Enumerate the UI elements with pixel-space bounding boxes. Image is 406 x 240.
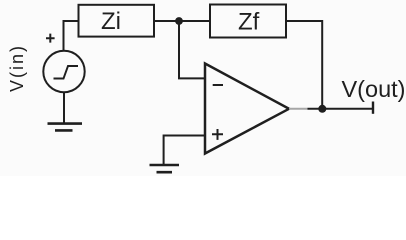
non-inverting input + pin mark [212,129,223,140]
ramp waveform symbol inside source [54,66,79,79]
wire node A down to inverting input [179,21,205,78]
output terminal tick [372,102,374,114]
source V1 circle [43,51,84,92]
wire from source + terminal up and right to Zi [64,21,79,51]
wire non-inverting input to ground [164,136,205,165]
ground at op-amp + input [150,165,180,172]
ground under source [48,124,83,131]
output node junction dot [318,105,326,113]
svg-text:Zi: Zi [101,8,121,35]
wire source bottom to ground [63,92,65,123]
impedance Zi box [79,5,155,37]
wire Zi to node A [154,20,179,22]
svg-text:V(in): V(in) [7,44,27,92]
svg-text:Zf: Zf [238,9,260,36]
impedance Zf box [210,5,286,38]
svg-text:V(out): V(out) [342,76,406,102]
feedback wire Zf right down to output node [286,21,322,109]
wire node A to Zf [179,20,210,22]
polarity + of source V1 [46,34,55,43]
node A junction dot [175,17,183,25]
output wire from op-amp tip to terminal [308,108,374,110]
output wire gray segment from op-amp tip [289,108,308,110]
inverting input - pin mark [213,84,223,86]
op-amp U1 triangle [205,64,289,154]
